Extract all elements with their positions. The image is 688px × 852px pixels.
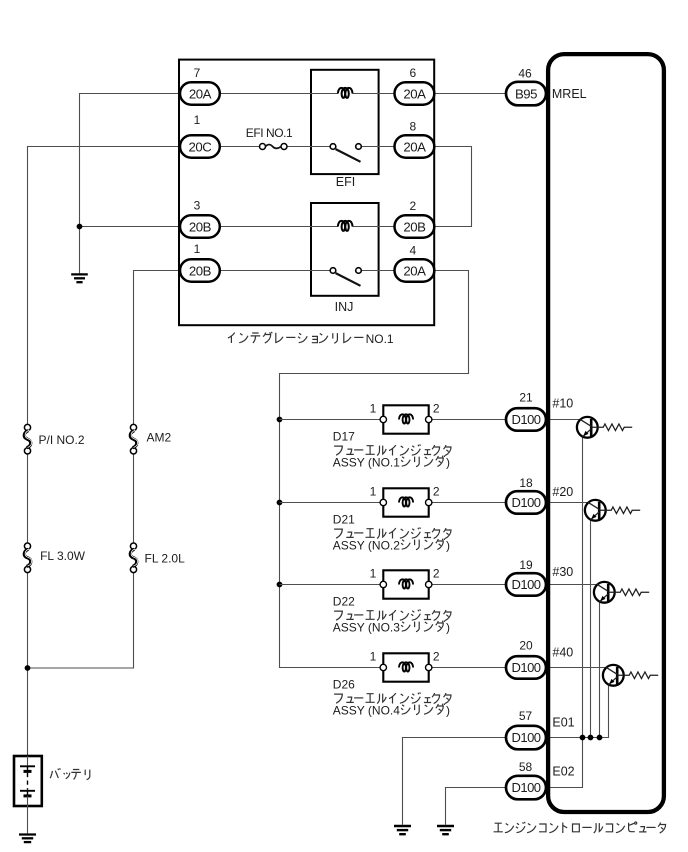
svg-text:1: 1 — [370, 402, 377, 416]
svg-text:): ) — [446, 621, 450, 635]
svg-text:ASSY (NO.2: ASSY (NO.2 — [333, 539, 400, 553]
svg-text:8: 8 — [409, 120, 416, 134]
svg-text:3: 3 — [194, 199, 201, 213]
svg-text:1: 1 — [370, 650, 377, 664]
svg-text:20A: 20A — [403, 86, 426, 101]
label D21 caption — [333, 513, 451, 553]
fuse EFI NO.1 — [246, 126, 293, 149]
svg-text:20: 20 — [519, 639, 533, 653]
svg-text:2: 2 — [433, 567, 440, 581]
label #30 — [552, 565, 573, 579]
svg-text:2: 2 — [433, 402, 440, 416]
node E01 junctions — [580, 735, 603, 741]
wire injector row 4 — [280, 667, 606, 669]
wire transistor Q1 emitter to E01/E02 — [546, 438, 583, 788]
label #20 — [552, 485, 573, 499]
svg-text:D21: D21 — [333, 513, 355, 527]
svg-text:#20: #20 — [552, 485, 573, 499]
wire transistor Q2 emitter to E01 — [590, 521, 592, 738]
wire pin1(lower) 20B to AM2 / FL 2.0L column — [28, 271, 180, 669]
svg-text:46: 46 — [518, 67, 532, 81]
svg-text:2: 2 — [409, 199, 416, 213]
svg-text:20A: 20A — [189, 86, 212, 101]
fusible link FL 2.0L — [130, 543, 185, 573]
svg-text:B95: B95 — [515, 86, 537, 101]
svg-text:7: 7 — [194, 66, 201, 80]
wire pin4 20A to injector supply bus — [280, 271, 469, 668]
pin 4 20A — [395, 244, 435, 282]
svg-text:): ) — [446, 456, 450, 470]
ground (relay circuit) — [71, 274, 88, 282]
svg-text:1: 1 — [194, 242, 201, 256]
svg-text:2: 2 — [433, 485, 440, 499]
svg-text:4: 4 — [409, 244, 416, 258]
fusible link FL 3.0W — [24, 543, 85, 573]
svg-text:D100: D100 — [511, 660, 540, 675]
svg-text:20A: 20A — [403, 263, 426, 278]
svg-text:D100: D100 — [511, 412, 540, 427]
transistor Q4 (injector driver #40) — [603, 665, 624, 686]
svg-text:D26: D26 — [333, 678, 355, 692]
svg-text:6: 6 — [409, 66, 416, 80]
pin 1 20B — [180, 242, 220, 282]
connector D100 pin 19 (#30) — [506, 558, 546, 596]
svg-text:58: 58 — [519, 760, 533, 774]
ECU caption エンジンコントロールコンピュータ — [494, 822, 666, 833]
resistor Q1 base — [591, 424, 632, 431]
svg-text:D100: D100 — [511, 577, 540, 592]
wire relay row3 internal — [220, 226, 395, 228]
svg-text:D100: D100 — [511, 730, 540, 745]
pin 6 20A — [395, 66, 435, 105]
wire relay row1 internal — [220, 93, 395, 95]
resistor Q3 base — [608, 589, 649, 596]
EFI relay switch — [330, 144, 361, 162]
svg-text:ASSY (NO.3: ASSY (NO.3 — [333, 621, 400, 635]
wire transistor Q3 emitter to E01 — [599, 603, 601, 738]
svg-text:21: 21 — [519, 391, 533, 405]
svg-text:#40: #40 — [552, 645, 573, 659]
svg-text:#30: #30 — [552, 565, 573, 579]
wire transistor Q4 emitter to E01 — [546, 685, 609, 738]
connector D100 pin 21 (#10) — [506, 391, 546, 431]
wire pin6 20A to connector B95 — [434, 93, 506, 95]
svg-text:D100: D100 — [511, 495, 540, 510]
wire injector row 1 — [280, 419, 581, 421]
INJ relay switch — [330, 268, 361, 286]
label D26 caption — [333, 678, 451, 718]
svg-text:20B: 20B — [189, 263, 212, 278]
svg-text:18: 18 — [519, 476, 533, 490]
label E02 — [552, 765, 574, 779]
EFI relay coil — [338, 88, 353, 98]
svg-text:MREL: MREL — [552, 87, 587, 101]
svg-text:#10: #10 — [552, 397, 573, 411]
svg-text:FL 3.0W: FL 3.0W — [40, 549, 86, 563]
ECU box (engine control computer) — [548, 54, 664, 812]
EFI relay inner box — [311, 70, 379, 189]
injector D26 (fuel injector assy no.4 cylinder) — [370, 650, 440, 682]
ground battery — [19, 835, 36, 843]
svg-text:20C: 20C — [189, 139, 213, 154]
relay caption インテグレーションリレーNO.1 — [228, 332, 394, 346]
svg-text:P/I NO.2: P/I NO.2 — [39, 433, 85, 447]
pin 3 20B — [180, 199, 220, 238]
connector D100 pin 57 (E01) — [506, 709, 546, 749]
svg-text:1: 1 — [370, 567, 377, 581]
wire battery to ground — [27, 806, 29, 833]
wire E01 to ground — [403, 738, 507, 825]
svg-text:NO.1: NO.1 — [366, 332, 394, 346]
svg-text:): ) — [446, 704, 450, 718]
svg-text:FL 2.0L: FL 2.0L — [145, 552, 186, 566]
relay box (integration relay NO.1) — [179, 60, 434, 326]
wire pin7 20A to ground junction — [80, 94, 180, 274]
svg-text:E02: E02 — [552, 765, 574, 779]
ground E01 — [394, 826, 411, 834]
transistor Q2 (injector driver #20) — [585, 500, 606, 521]
svg-text:D100: D100 — [511, 780, 540, 795]
connector D100 pin 18 (#20) — [506, 476, 546, 514]
wire relay row2 internal — [220, 146, 395, 148]
svg-text:): ) — [446, 539, 450, 553]
label D17 caption — [333, 430, 451, 470]
svg-text:ASSY (NO.1: ASSY (NO.1 — [333, 456, 400, 470]
svg-text:20B: 20B — [403, 219, 426, 234]
svg-text:INJ: INJ — [335, 300, 354, 314]
label D22 caption — [333, 595, 451, 635]
connector B95 pin 46 MREL — [506, 67, 587, 106]
injector D22 (fuel injector assy no.3 cylinder) — [370, 567, 440, 599]
label #10 — [552, 397, 573, 411]
svg-text:D22: D22 — [333, 595, 355, 609]
wire pin8 20A loop to pin2 20B — [434, 147, 472, 227]
connector D100 pin 20 (#40) — [506, 639, 546, 679]
label E01 — [552, 716, 574, 730]
svg-text:20B: 20B — [189, 219, 212, 234]
wire pin3 20B to junction — [80, 226, 180, 228]
wire injector row 3 — [280, 584, 598, 586]
svg-text:57: 57 — [519, 709, 533, 723]
svg-text:AM2: AM2 — [147, 431, 172, 445]
svg-text:1: 1 — [194, 113, 201, 127]
node junction battery feed — [25, 665, 31, 671]
svg-text:EFI NO.1: EFI NO.1 — [246, 126, 293, 140]
pin 1 20C — [180, 113, 220, 158]
wire E02 to ground — [446, 788, 507, 825]
ground E02 — [437, 826, 454, 834]
svg-text:20A: 20A — [403, 139, 426, 154]
INJ relay inner box — [311, 203, 379, 314]
node injector bus junction row 1 — [277, 417, 283, 423]
battery バッテリ — [14, 756, 90, 806]
node injector bus junction row 3 — [277, 582, 283, 588]
resistor Q2 base — [599, 507, 640, 514]
node junction pin7/pin3/ground — [77, 224, 83, 230]
svg-text:2: 2 — [433, 650, 440, 664]
node injector bus junction row 2 — [277, 500, 283, 506]
injector D21 (fuel injector assy no.2 cylinder) — [370, 485, 440, 517]
svg-text:D17: D17 — [333, 430, 355, 444]
svg-text:ASSY (NO.4: ASSY (NO.4 — [333, 704, 400, 718]
injector D17 (fuel injector assy no.1 cylinder) — [370, 402, 440, 434]
resistor Q4 base — [617, 672, 658, 679]
pin 2 20B — [395, 199, 435, 238]
svg-text:E01: E01 — [552, 716, 574, 730]
wire injector row 2 — [280, 502, 589, 504]
svg-text:1: 1 — [370, 485, 377, 499]
fusible link P/I NO.2 — [24, 424, 85, 454]
transistor Q3 (injector driver #30) — [594, 582, 615, 603]
wire pin1 20C to P/I NO.2 / FL 3.0W / battery column — [28, 147, 180, 757]
connector D100 pin 58 (E02) — [506, 760, 546, 800]
INJ relay coil — [338, 221, 353, 231]
svg-text:EFI: EFI — [336, 175, 355, 189]
wire relay row4 internal — [220, 270, 395, 272]
pin 7 20A — [180, 66, 220, 105]
svg-text:19: 19 — [519, 558, 533, 572]
label #40 — [552, 645, 573, 659]
pin 8 20A — [395, 120, 435, 158]
fusible link AM2 — [130, 424, 171, 454]
transistor Q1 (injector driver #10) — [577, 417, 598, 438]
